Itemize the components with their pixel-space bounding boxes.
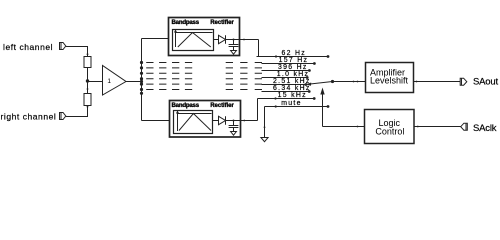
wire D1 output	[226, 39, 259, 41]
wire F2 to diode D2	[213, 120, 219, 122]
connector SAout	[460, 78, 467, 85]
wire F1 to diode D1	[214, 39, 219, 41]
wire dashed channel row 2	[146, 67, 262, 69]
wire dashed channel row 3	[146, 72, 262, 74]
svg-text:1.0 kHz: 1.0 kHz	[277, 71, 309, 78]
node 157 Hz row	[262, 57, 316, 65]
svg-text:157 Hz: 157 Hz	[279, 57, 309, 64]
filter F2 response curve	[179, 114, 211, 131]
block U3 lower bandpass rectifier outer box	[170, 101, 241, 138]
filter F2 axis	[177, 112, 179, 131]
ground C1	[231, 51, 237, 55]
junction bus dot 3	[140, 72, 143, 75]
svg-text:Rectifier: Rectifier	[210, 19, 234, 26]
wire left channel to R1	[66, 47, 88, 57]
wire node A to op-amp	[88, 81, 103, 83]
pin dot amp output	[416, 81, 418, 83]
wire node A to R2	[87, 81, 89, 93]
junction bus dot 5	[140, 83, 143, 86]
diode D1	[219, 35, 226, 43]
svg-text:Bandpass: Bandpass	[172, 19, 200, 26]
pin dot R2 bottom	[87, 106, 89, 108]
pin dot amp input b	[357, 81, 359, 83]
svg-text:left channel: left channel	[3, 42, 53, 52]
resistor R2	[84, 94, 91, 106]
svg-text:1: 1	[107, 78, 111, 85]
junction bus dot 6	[140, 88, 143, 91]
svg-text:Rectifier: Rectifier	[210, 102, 234, 109]
capacitor C2	[229, 121, 239, 132]
wire D2 output	[226, 120, 258, 122]
node mute row	[265, 100, 330, 108]
connector J2 right channel	[60, 113, 66, 120]
pin dot R2 top	[87, 88, 89, 90]
switch S1 control arrow	[320, 88, 324, 127]
wire R1 to node A	[87, 68, 89, 82]
block U5 logic control	[365, 110, 415, 144]
pin dot logic output	[417, 126, 419, 128]
node 1.0 kHz row	[262, 71, 310, 79]
svg-text:Levelshift: Levelshift	[370, 76, 409, 86]
wire R2 to right channel connector	[66, 106, 88, 117]
wire bus to lower bandpass	[142, 120, 174, 122]
pin dot amp input a	[353, 81, 355, 83]
filter F1 response curve	[178, 33, 211, 48]
wire bus vertical	[141, 39, 143, 121]
wire upper output elbow to 62Hz row	[258, 40, 260, 57]
ground C2	[231, 132, 237, 136]
svg-text:Bandpass: Bandpass	[172, 102, 200, 109]
svg-text:62 Hz: 62 Hz	[282, 50, 307, 57]
svg-text:2.51 kHz: 2.51 kHz	[273, 78, 311, 85]
junction bus dot 4	[140, 77, 143, 80]
node 6.34 kHz row	[262, 85, 311, 93]
filter F1 reference line	[176, 32, 213, 34]
svg-text:Control: Control	[375, 127, 404, 137]
block U4 amplifier levelshift	[366, 63, 414, 93]
capacitor C1	[229, 40, 239, 51]
wire control to logic box	[323, 126, 365, 128]
svg-text:6.34 kHz: 6.34 kHz	[273, 85, 311, 92]
svg-text:396 Hz: 396 Hz	[278, 64, 308, 71]
pin dot lower output	[243, 120, 245, 122]
node 2.51 kHz row	[262, 78, 311, 86]
junction bus dot 7	[140, 92, 143, 95]
wire amplifier to SAout	[414, 81, 461, 83]
node 396 Hz row	[262, 64, 311, 72]
filter F2 reference line	[178, 113, 212, 115]
junction cap C2 tap	[233, 120, 235, 122]
wire op-amp output to bus	[126, 81, 142, 83]
block U2 upper bandpass rectifier outer box	[169, 18, 240, 56]
wire lower output elbow to 15kHz row	[257, 99, 259, 121]
pin dot upper output	[243, 39, 245, 41]
pin dot mute ground	[264, 126, 266, 128]
diode D2	[219, 116, 226, 124]
wire dashed channel row 4	[146, 78, 262, 80]
pin dot R1 top	[87, 53, 89, 55]
connector J1 left channel	[60, 43, 66, 50]
node A junction	[86, 79, 89, 82]
wire logic to SAclk	[414, 126, 461, 128]
wire switch pivot to amplifier	[333, 81, 366, 83]
junction bus op-amp	[140, 80, 143, 83]
svg-text:right channel: right channel	[1, 112, 57, 122]
filter F2 inner box	[174, 111, 213, 134]
wire dashed channel row 6	[146, 89, 262, 91]
node 15 kHz row	[258, 92, 316, 100]
node 62 Hz row	[257, 50, 330, 58]
junction cap C1 tap	[233, 39, 235, 41]
connector SAclk	[461, 123, 468, 130]
ground mute	[261, 138, 268, 142]
junction bus dot 2	[140, 66, 143, 69]
svg-text:SAclk: SAclk	[473, 123, 497, 134]
filter F1 inner box	[173, 30, 214, 51]
svg-text:15 kHz: 15 kHz	[278, 92, 307, 99]
junction bus dot 1	[140, 61, 143, 64]
svg-text:SAout: SAout	[473, 76, 498, 87]
filter F1 axis	[175, 31, 177, 47]
wire mute to ground	[264, 107, 266, 138]
pin dot logic input	[357, 126, 359, 128]
switch S1 arm	[306, 80, 335, 86]
op-amp U1	[103, 66, 127, 96]
wire dashed channel row 5	[146, 83, 262, 85]
svg-text:mute: mute	[281, 100, 302, 107]
resistor R1	[84, 57, 91, 68]
wire dashed channel row 1	[146, 62, 262, 64]
wire bus to upper bandpass	[142, 38, 173, 40]
